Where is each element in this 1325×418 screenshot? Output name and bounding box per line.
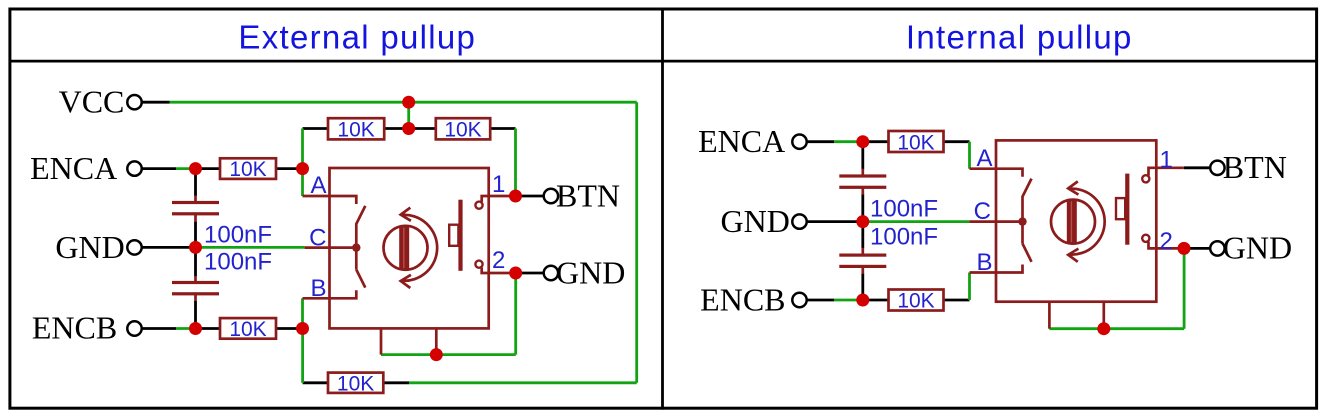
svg-text:ENCA: ENCA [698, 123, 785, 159]
svg-text:10K: 10K [229, 158, 266, 181]
svg-text:GND: GND [720, 203, 789, 239]
svg-text:A: A [310, 172, 326, 199]
svg-text:A: A [976, 145, 992, 172]
svg-text:C: C [309, 224, 326, 251]
svg-text:100nF: 100nF [870, 224, 938, 251]
svg-text:2: 2 [1160, 228, 1173, 255]
svg-text:100nF: 100nF [204, 222, 272, 249]
svg-text:BTN: BTN [556, 177, 620, 213]
svg-text:C: C [974, 198, 991, 225]
svg-text:100nF: 100nF [204, 249, 272, 276]
svg-text:ENCA: ENCA [30, 150, 117, 186]
svg-text:10K: 10K [337, 373, 374, 396]
svg-text:Internal pullup: Internal pullup [906, 19, 1133, 56]
svg-text:External pullup: External pullup [238, 19, 476, 56]
svg-text:BTN: BTN [1223, 149, 1287, 185]
svg-text:10K: 10K [229, 318, 266, 341]
svg-text:GND: GND [55, 229, 124, 265]
svg-text:GND: GND [556, 254, 625, 290]
svg-text:10K: 10K [897, 290, 934, 313]
svg-text:B: B [976, 249, 992, 276]
svg-text:1: 1 [1160, 147, 1173, 174]
svg-text:10K: 10K [337, 118, 374, 141]
svg-text:100nF: 100nF [870, 196, 938, 223]
svg-text:1: 1 [492, 171, 505, 198]
svg-text:ENCB: ENCB [700, 281, 785, 317]
svg-text:2: 2 [492, 247, 505, 274]
svg-text:B: B [310, 275, 326, 302]
svg-text:VCC: VCC [59, 84, 125, 120]
svg-text:GND: GND [1223, 230, 1292, 266]
svg-text:ENCB: ENCB [32, 310, 117, 346]
svg-text:10K: 10K [444, 118, 481, 141]
svg-text:10K: 10K [897, 131, 934, 154]
